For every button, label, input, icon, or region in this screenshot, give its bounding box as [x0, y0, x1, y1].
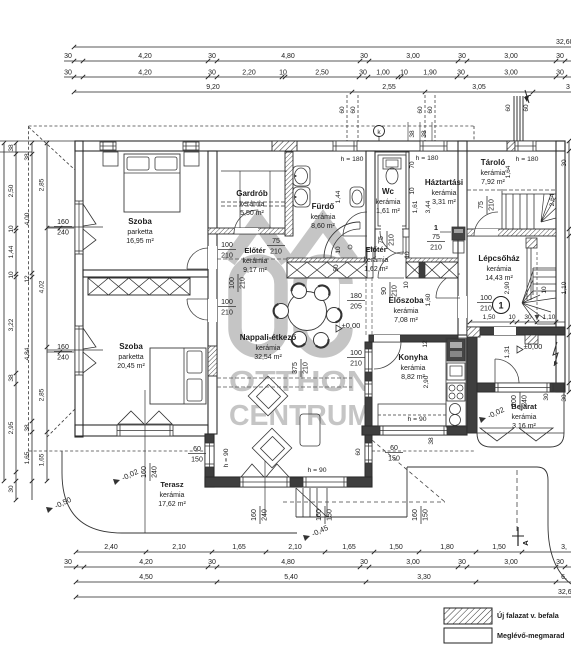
svg-text:7,08 m²: 7,08 m²	[394, 317, 418, 324]
svg-text:9,17 m²: 9,17 m²	[243, 267, 267, 274]
svg-text:2,20: 2,20	[242, 70, 256, 77]
window glazing triangles upper	[83, 204, 96, 250]
svg-text:OTTHON: OTTHON	[229, 366, 371, 398]
svg-text:160: 160	[251, 509, 258, 521]
window top wall szoba1 A	[100, 142, 116, 150]
svg-text:160: 160	[141, 466, 148, 478]
svg-text:32,60: 32,60	[556, 39, 571, 46]
wall porch north (entry)	[477, 383, 565, 392]
svg-text:75: 75	[378, 236, 385, 244]
window kitchen west lower	[365, 381, 372, 397]
lintel beam szoba with X bracing	[88, 278, 190, 295]
svg-text:30: 30	[208, 559, 216, 566]
svg-text:kerámia: kerámia	[311, 214, 336, 221]
bottom dimension line 2	[64, 566, 571, 568]
pier entry east	[553, 383, 564, 392]
svg-text:30: 30	[64, 559, 72, 566]
svg-text:240: 240	[152, 466, 159, 478]
lintel beam hall A hatched strip	[287, 258, 367, 262]
svg-text:150: 150	[388, 456, 400, 463]
window szoba2 south 160/240	[117, 425, 173, 436]
window top wall szoba1 B	[183, 142, 199, 150]
watermark letter C	[300, 261, 346, 351]
svg-text:100: 100	[221, 299, 233, 306]
előtér2 east stub	[403, 229, 409, 237]
svg-text:3: 3	[566, 84, 570, 91]
svg-text:1,60: 1,60	[425, 293, 432, 306]
svg-text:30: 30	[359, 70, 367, 77]
svg-text:210: 210	[480, 306, 492, 313]
new wall hatched top A	[272, 141, 297, 151]
property boundary dashed top	[29, 125, 475, 127]
svg-text:75: 75	[432, 234, 440, 241]
bed szoba2	[150, 348, 206, 404]
svg-text:30: 30	[64, 70, 72, 77]
svg-text:10: 10	[409, 187, 416, 195]
svg-text:100: 100	[221, 242, 233, 249]
wall kitchen south	[362, 426, 467, 435]
door opening gaps	[208, 246, 217, 269]
svg-text:60: 60	[523, 104, 530, 112]
lintel beam hall A	[287, 262, 367, 278]
door előszoba to előtér2	[378, 252, 404, 278]
svg-text:30: 30	[360, 559, 368, 566]
door szoba2 from előtér	[187, 299, 208, 320]
svg-text:4,00: 4,00	[24, 212, 31, 225]
wardrobe gardrob	[221, 170, 287, 172]
svg-text:1,62 m²: 1,62 m²	[364, 266, 388, 273]
dashed ground line west	[29, 450, 206, 452]
svg-text:160: 160	[316, 509, 323, 521]
svg-text:210: 210	[221, 253, 233, 260]
junction pier beam B	[419, 262, 425, 278]
svg-text:4,84: 4,84	[24, 347, 31, 360]
svg-text:3,22: 3,22	[8, 318, 15, 331]
walkway top edge	[407, 466, 537, 468]
svg-text:2,85: 2,85	[39, 178, 46, 191]
svg-text:2,10: 2,10	[172, 544, 186, 551]
svg-text:±0,00: ±0,00	[342, 321, 361, 330]
right dimension line	[568, 141, 570, 392]
cabinet living	[300, 414, 320, 446]
terrace steps	[296, 488, 327, 517]
pier living south	[290, 478, 303, 487]
bed szoba1	[124, 154, 180, 212]
wall kitchen west	[365, 342, 372, 477]
svg-text:50: 50	[333, 264, 340, 272]
svg-text:30: 30	[208, 53, 216, 60]
svg-text:32,60: 32,60	[558, 589, 571, 596]
svg-text:60: 60	[427, 106, 434, 114]
svg-text:210: 210	[270, 249, 282, 256]
svg-text:10: 10	[335, 246, 342, 254]
svg-text:150: 150	[327, 509, 334, 521]
circled 1 marker	[493, 297, 510, 314]
top dimension line 1 overall	[74, 46, 571, 48]
vent stack dashed pair A	[346, 95, 348, 141]
upper stair winder fan	[541, 194, 556, 222]
svg-text:1,65: 1,65	[342, 544, 356, 551]
wall kitchen north	[369, 335, 458, 342]
svg-text:h = 180: h = 180	[341, 156, 364, 163]
svg-text:14,43 m²: 14,43 m²	[485, 275, 513, 282]
svg-text:30: 30	[556, 53, 564, 60]
svg-text:kerámia: kerámia	[401, 365, 426, 372]
lower stair treads lépcsőház	[533, 269, 556, 271]
svg-text:10: 10	[400, 70, 408, 77]
wall wc partition	[375, 152, 409, 229]
stair walk line dashed with arrow	[536, 252, 538, 320]
dashed beam line nappali B	[217, 386, 352, 388]
svg-text:kerámia: kerámia	[487, 266, 512, 273]
washing machine	[452, 227, 465, 240]
lightning arrow drain	[553, 342, 558, 366]
wall V2 szoba east	[208, 151, 217, 434]
pier stair top	[526, 238, 537, 248]
svg-text:60: 60	[193, 446, 201, 453]
svg-text:1,64: 1,64	[505, 165, 512, 178]
door fürdő	[343, 212, 367, 236]
svg-text:205: 205	[350, 304, 362, 311]
svg-text:30: 30	[524, 314, 532, 321]
svg-text:1,50: 1,50	[389, 544, 403, 551]
svg-text:Szoba: Szoba	[128, 217, 152, 226]
window living wing east 60	[365, 443, 372, 463]
svg-text:160: 160	[412, 509, 419, 521]
svg-text:30: 30	[458, 559, 466, 566]
svg-text:h = 180: h = 180	[416, 155, 439, 162]
svg-text:20,45 m²: 20,45 m²	[117, 363, 145, 370]
svg-text:17,62 m²: 17,62 m²	[158, 501, 186, 508]
svg-text:16,95 m²: 16,95 m²	[126, 238, 154, 245]
svg-text:240: 240	[57, 230, 69, 237]
svg-text:10: 10	[404, 251, 411, 259]
dashed corner diagonal top-left	[29, 127, 76, 170]
svg-text:150: 150	[423, 509, 430, 521]
left dimension column 1	[3, 143, 5, 481]
svg-text:4,20: 4,20	[138, 53, 152, 60]
svg-text:3,00: 3,00	[406, 53, 420, 60]
svg-text:8,82 m²: 8,82 m²	[401, 374, 425, 381]
svg-text:3,30: 3,30	[417, 574, 431, 581]
svg-text:375: 375	[292, 362, 299, 374]
svg-text:30: 30	[561, 394, 568, 402]
svg-text:Konyha: Konyha	[398, 353, 428, 362]
svg-text:Nappali-étkező: Nappali-étkező	[240, 333, 297, 342]
sink fürdő B	[293, 187, 310, 207]
sink fürdő A	[293, 166, 310, 186]
svg-text:1,31: 1,31	[504, 345, 511, 358]
svg-text:1,50: 1,50	[492, 544, 506, 551]
pier lépcsőház south-west	[467, 327, 480, 337]
chimney solid pair C	[513, 96, 515, 141]
wall living wing south	[205, 477, 372, 487]
svg-text:3,44: 3,44	[425, 200, 432, 213]
toilet wc	[383, 158, 401, 169]
bottom dimension line 4 overall	[76, 596, 571, 598]
door wc leaf	[380, 231, 403, 254]
sofa A	[248, 376, 288, 416]
svg-text:60: 60	[417, 106, 424, 114]
svg-text:4,80: 4,80	[281, 559, 295, 566]
svg-text:2,50: 2,50	[315, 70, 329, 77]
svg-text:30: 30	[556, 559, 564, 566]
svg-text:4,20: 4,20	[138, 70, 152, 77]
svg-text:1,65: 1,65	[24, 451, 31, 464]
svg-text:2,10: 2,10	[288, 544, 302, 551]
bidet fürdő	[350, 187, 364, 207]
entry door double line	[495, 383, 550, 392]
svg-text:8,60 m²: 8,60 m²	[311, 223, 335, 230]
svg-text:±0,00: ±0,00	[524, 342, 543, 351]
top dimension line 2	[64, 60, 571, 62]
beam line dashed előtér1	[217, 258, 287, 260]
svg-text:kerámia: kerámia	[394, 308, 419, 315]
svg-text:38: 38	[409, 130, 416, 138]
left dimension column 4	[46, 143, 48, 481]
fridge	[447, 339, 465, 361]
svg-text:4,50: 4,50	[139, 574, 153, 581]
new wall hatched szoba2 east segment	[208, 346, 217, 376]
svg-text:1,44: 1,44	[335, 190, 342, 203]
left dimension column 2	[15, 143, 17, 500]
window top wall furdo	[333, 141, 357, 151]
svg-text:Terasz: Terasz	[160, 480, 183, 489]
sofa B	[252, 428, 292, 468]
svg-text:38: 38	[8, 144, 15, 152]
svg-text:kerámia: kerámia	[160, 492, 185, 499]
dryer box	[453, 241, 464, 253]
svg-text:90: 90	[381, 287, 388, 295]
svg-text:kerámia: kerámia	[256, 345, 281, 352]
svg-text:Fürdő: Fürdő	[312, 202, 335, 211]
svg-text:Háztartási: Háztartási	[425, 178, 463, 187]
stove	[447, 383, 465, 401]
svg-text:210: 210	[350, 361, 362, 368]
svg-text:Tároló: Tároló	[481, 158, 506, 167]
dashed opening előszoba west	[365, 277, 367, 335]
svg-text:Előtér: Előtér	[365, 245, 386, 254]
svg-text:5,50 m²: 5,50 m²	[240, 210, 264, 217]
svg-text:30: 30	[556, 70, 564, 77]
svg-text:kerámia: kerámia	[432, 190, 457, 197]
svg-text:240: 240	[522, 395, 529, 407]
svg-text:60: 60	[339, 106, 346, 114]
watermark OC logo roof over O	[229, 221, 287, 261]
wall szoba south (south-west outer)	[75, 425, 208, 436]
svg-text:1,44: 1,44	[8, 245, 15, 258]
legend existing wall box	[444, 628, 492, 643]
svg-text:1,10: 1,10	[543, 314, 556, 321]
svg-text:38: 38	[8, 374, 15, 382]
svg-text:Szoba: Szoba	[119, 342, 143, 351]
bottom dimension line 1	[76, 551, 571, 553]
door előszoba to lépcsőház	[436, 274, 460, 298]
porch steps triangles	[480, 428, 553, 441]
stair rail double line	[526, 248, 528, 300]
svg-text:kerámia: kerámia	[376, 199, 401, 206]
nightstand left	[103, 152, 118, 166]
bottom dimension line 3	[76, 581, 571, 583]
svg-text:38: 38	[428, 437, 435, 445]
svg-text:h = 180: h = 180	[516, 156, 539, 163]
svg-text:100: 100	[350, 350, 362, 357]
svg-text:10: 10	[541, 286, 548, 294]
dashed ground line east	[372, 450, 476, 452]
extension line top	[0, 140, 75, 142]
svg-text:30: 30	[360, 53, 368, 60]
svg-text:210: 210	[489, 199, 496, 211]
svg-text:4,02: 4,02	[39, 280, 46, 293]
door tároló	[474, 212, 498, 236]
circled k marker	[374, 126, 385, 137]
terrace paved edge arc	[62, 451, 297, 533]
svg-text:1,65: 1,65	[232, 544, 246, 551]
svg-text:70: 70	[409, 161, 416, 169]
wall H3 szoba divider	[83, 270, 208, 277]
legend new wall hatched box	[444, 608, 492, 624]
svg-text:3,31 m²: 3,31 m²	[432, 199, 456, 206]
kitchen counter right	[446, 338, 466, 427]
stair cut dashed line	[467, 189, 556, 191]
svg-text:3,00: 3,00	[504, 53, 518, 60]
svg-text:5,40: 5,40	[284, 574, 298, 581]
svg-text:h = 90: h = 90	[223, 448, 230, 467]
svg-text:30: 30	[208, 70, 216, 77]
porch platform	[477, 392, 565, 433]
svg-text:210: 210	[240, 277, 247, 289]
svg-text:Gardrób: Gardrób	[236, 189, 268, 198]
wall porch west	[467, 335, 477, 433]
door szoba1 from előtér	[187, 248, 208, 269]
window kitchen south h90	[380, 426, 447, 435]
dining table	[288, 292, 327, 331]
svg-text:160: 160	[57, 219, 69, 226]
wall living wing west	[205, 434, 214, 487]
walkway dashed centre	[516, 470, 518, 533]
door bejárat entry	[495, 359, 519, 383]
dashed diagonal to walkway	[372, 440, 445, 502]
upper stair treads tároló	[505, 194, 507, 229]
wall V5 staircase west	[458, 141, 467, 335]
svg-text:kerámia: kerámia	[481, 170, 506, 177]
svg-text:240: 240	[262, 509, 269, 521]
svg-text:Wc: Wc	[382, 187, 395, 196]
svg-text:2,50: 2,50	[8, 184, 15, 197]
svg-text:38: 38	[24, 153, 31, 161]
svg-text:60: 60	[505, 104, 512, 112]
svg-text:2,64: 2,64	[549, 193, 556, 206]
lower stair winder fan	[522, 271, 556, 324]
svg-text:1,50: 1,50	[483, 314, 496, 321]
svg-text:1,80: 1,80	[440, 544, 454, 551]
svg-text:100: 100	[229, 277, 236, 289]
svg-text:parketta: parketta	[118, 354, 143, 361]
svg-text:10: 10	[403, 281, 410, 289]
window top wall tároló	[515, 141, 536, 151]
svg-text:210: 210	[389, 234, 396, 246]
svg-text:Lépcsőház: Lépcsőház	[478, 254, 519, 263]
svg-text:1,61 m²: 1,61 m²	[376, 208, 400, 215]
wall gardrob south hatched	[208, 228, 293, 234]
svg-text:2,90: 2,90	[423, 375, 430, 388]
section marker A bottom	[517, 527, 519, 546]
svg-text:75: 75	[478, 201, 485, 209]
svg-text:60: 60	[390, 445, 398, 452]
kitchen counter south	[378, 404, 446, 426]
svg-text:h = 90: h = 90	[407, 416, 426, 423]
svg-text:2,40: 2,40	[104, 544, 118, 551]
kitchen sink	[450, 404, 461, 415]
svg-text:240: 240	[57, 355, 69, 362]
window glazing triangles lower	[83, 328, 96, 373]
svg-text:3,: 3,	[561, 544, 567, 551]
section marker arrow top right	[525, 90, 531, 103]
svg-text:1,90: 1,90	[423, 70, 437, 77]
new wall hatched gardrob east	[285, 152, 293, 236]
lintel beam hall B	[406, 262, 458, 278]
dashed diagonal bottom-left	[47, 409, 75, 437]
svg-text:parketta: parketta	[127, 229, 152, 236]
svg-text:h = 90: h = 90	[307, 467, 326, 474]
svg-text:10: 10	[279, 70, 287, 77]
svg-text:180: 180	[350, 293, 362, 300]
svg-text:3,00: 3,00	[406, 559, 420, 566]
window living south B	[303, 477, 347, 487]
svg-text:4,20: 4,20	[139, 559, 153, 566]
window kitchen west opening	[365, 349, 372, 372]
svg-text:3,05: 3,05	[472, 84, 486, 91]
svg-text:150: 150	[191, 457, 203, 464]
watermark letter O	[235, 261, 281, 351]
svg-text:2,90: 2,90	[504, 281, 511, 294]
outer wall left	[75, 141, 83, 437]
svg-text:30: 30	[458, 53, 466, 60]
lintel beam hall B hatched strip	[406, 258, 458, 262]
window glazing triangles szoba2 south	[118, 411, 172, 424]
svg-text:38: 38	[24, 424, 31, 432]
outer wall right	[556, 141, 565, 392]
walk edge	[296, 516, 407, 518]
watermark OC logo roof over C	[294, 221, 352, 261]
window living wing west 60	[205, 443, 214, 467]
svg-text:12: 12	[24, 275, 31, 283]
svg-text:Előtér: Előtér	[244, 246, 265, 255]
svg-text:30: 30	[8, 485, 15, 493]
svg-text:30: 30	[543, 393, 550, 401]
svg-text:200: 200	[511, 395, 518, 407]
vent stack dashed pair B	[424, 95, 426, 141]
svg-text:10: 10	[8, 225, 15, 233]
window left wall upper 160/240	[75, 201, 83, 254]
svg-text:7,92 m²: 7,92 m²	[481, 179, 505, 186]
door konyha	[374, 342, 401, 369]
előtér2 west partition	[367, 248, 373, 278]
svg-text:3,16 m²: 3,16 m²	[512, 423, 536, 430]
svg-text:32,54 m²: 32,54 m²	[254, 354, 282, 361]
svg-text:100: 100	[480, 295, 492, 302]
dashed beam line nappali A	[217, 377, 352, 379]
svg-text:1,61: 1,61	[412, 200, 419, 213]
svg-text:210: 210	[221, 310, 233, 317]
window living south french door	[240, 477, 290, 487]
svg-text:210: 210	[392, 285, 399, 297]
svg-text:30: 30	[457, 70, 465, 77]
outer wall top	[75, 141, 565, 151]
svg-text:kerámia: kerámia	[512, 414, 537, 421]
svg-text:kerámia: kerámia	[364, 257, 389, 264]
svg-text:1: 1	[434, 223, 438, 232]
